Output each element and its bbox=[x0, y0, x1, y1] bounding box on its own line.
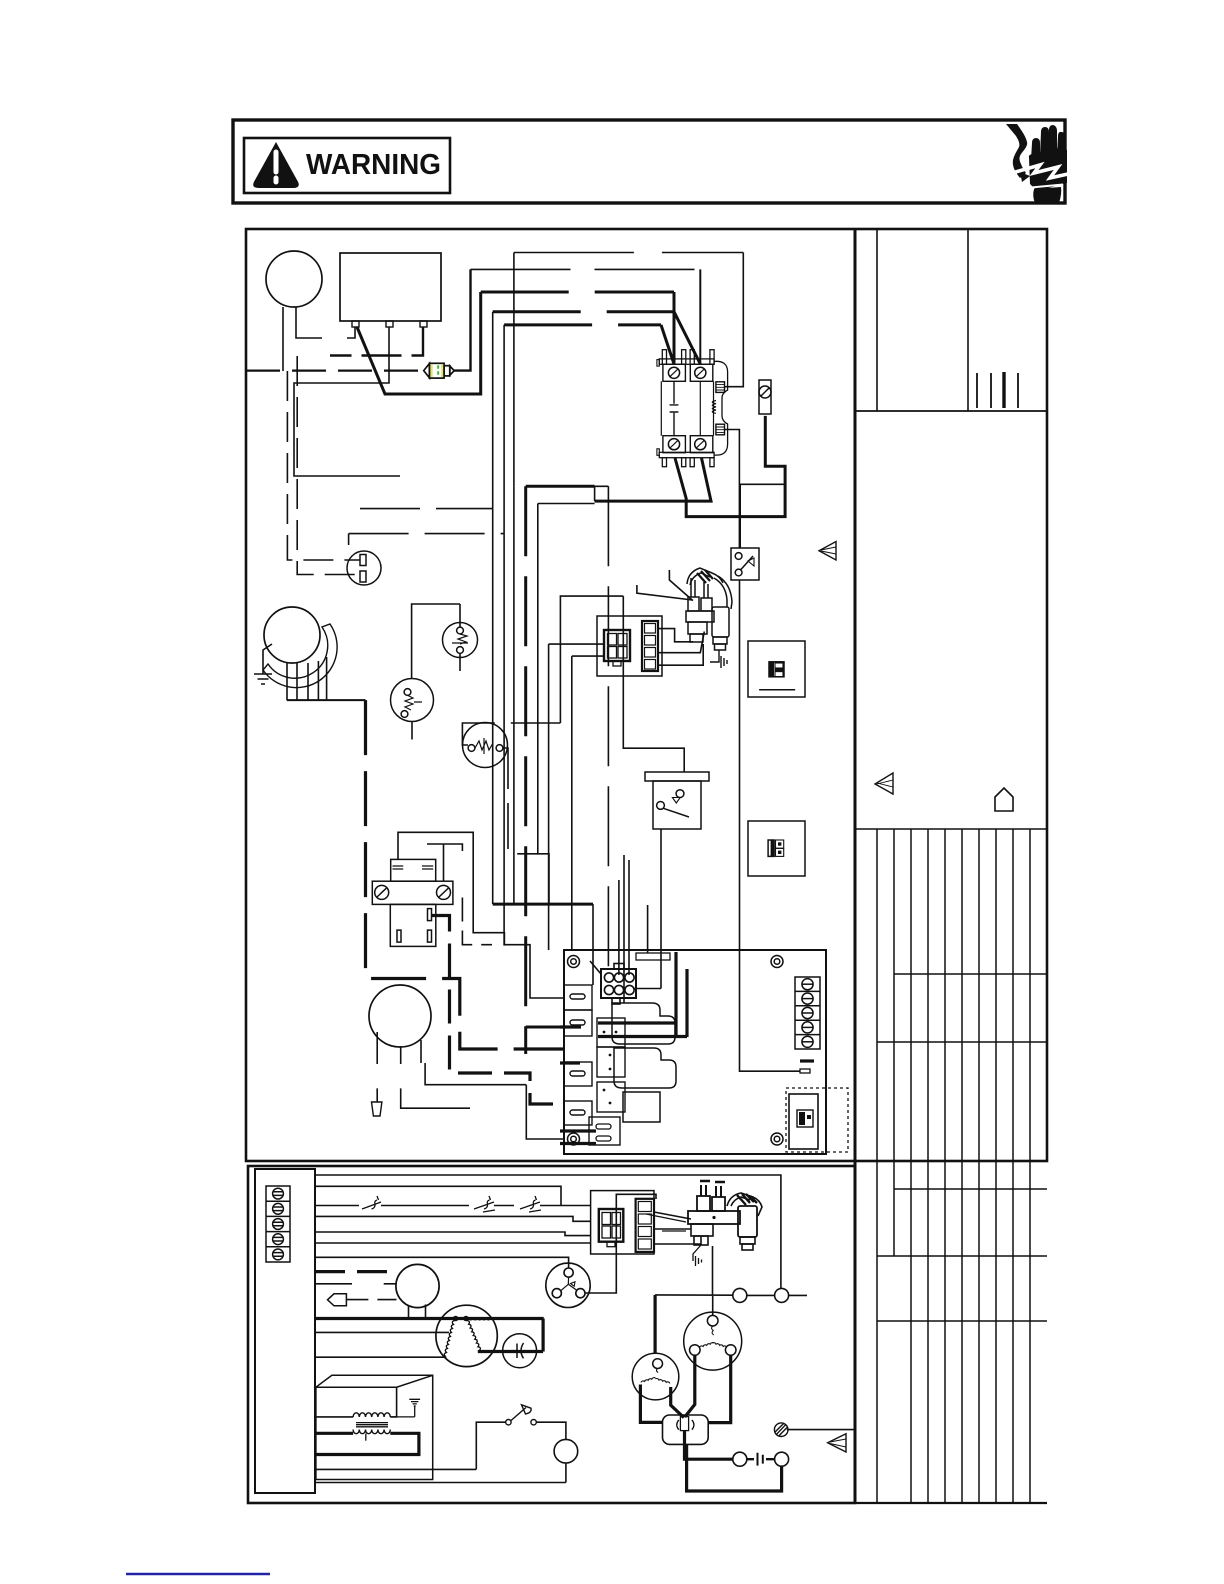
pressure switch PS1 bbox=[731, 548, 759, 580]
table row divider 2 bbox=[877, 1041, 1047, 1043]
table row divider 4 bbox=[877, 1255, 1047, 1257]
field plug arrow PA bbox=[328, 1294, 347, 1306]
connector CN2 4-slot header bbox=[636, 1199, 654, 1252]
contactor screw T4 bbox=[695, 439, 706, 450]
right panel horizontal divider bbox=[855, 410, 1047, 412]
board screw hole bottom-left bbox=[568, 1133, 580, 1145]
wire PL1 upper lead bbox=[287, 371, 360, 560]
connector CN2 4-pin plug bbox=[599, 1209, 624, 1247]
B1 terminal stub 1 bbox=[352, 321, 359, 327]
warning inner label box bbox=[244, 138, 450, 193]
wire IDM stub 2 bbox=[346, 1299, 396, 1301]
wire B1 stub3 drop bbox=[330, 327, 423, 356]
wire PS1 drop bbox=[740, 580, 801, 1071]
board left terminal cell 1 bbox=[564, 985, 592, 1125]
wire riser v1 bbox=[492, 312, 494, 509]
wire M2 lead 3 bbox=[421, 1040, 526, 1085]
wire P3 right lead bbox=[585, 1194, 656, 1293]
table column line 8 bbox=[995, 829, 997, 1503]
revision tick 4 bbox=[1017, 373, 1019, 408]
wire LS1 bottom drop bbox=[660, 829, 662, 989]
wire T4 chain riser bbox=[594, 486, 596, 501]
wire lamp bottom bbox=[565, 1463, 567, 1483]
right panel left edge bbox=[854, 229, 857, 1503]
ground G1 bbox=[254, 644, 272, 684]
wire thick M3B top feed bbox=[653, 1295, 656, 1354]
wire B1 stub2 drop bbox=[294, 327, 400, 476]
transformer dashed outline box bbox=[786, 1088, 848, 1152]
contactor screw T3 bbox=[668, 439, 679, 450]
wire L5 thick dashed bbox=[504, 323, 661, 326]
revision tick 1 bbox=[976, 373, 978, 408]
connector CN2 housing bbox=[591, 1191, 654, 1254]
contactor coil terminal upper bbox=[716, 382, 725, 393]
wire dashed run to fuse bbox=[246, 370, 424, 372]
wire thick T4 bottom run bbox=[595, 458, 711, 501]
wire GV1 ground lead bbox=[710, 650, 727, 668]
wire T2 vertical drop bbox=[699, 269, 701, 364]
wire GS2 to frame bbox=[787, 1429, 855, 1431]
B1 terminal stub 2 bbox=[386, 321, 393, 327]
relay pin box 1 bbox=[597, 1018, 625, 1047]
inducer motor IDM bbox=[396, 1264, 439, 1307]
transformer primary coil bbox=[353, 1413, 390, 1417]
spec table bbox=[855, 829, 1047, 1503]
wire R1 screw jumper bbox=[427, 844, 462, 881]
flame sensor box RS2 bbox=[748, 821, 805, 876]
internal overload O1 bbox=[443, 623, 478, 658]
wire thick board horizontal 2 bbox=[598, 1035, 687, 1038]
connector CN1 4-pin plug bbox=[604, 630, 630, 666]
wire thick B1 diagonal feed bbox=[357, 292, 481, 394]
wire CN1 to valve 1 bbox=[658, 629, 693, 642]
run capacitor box B1 bbox=[340, 253, 441, 321]
relay K1 outline bbox=[612, 1003, 675, 1044]
wire compressor bottom bus bbox=[287, 699, 366, 701]
contactor left bottom notch bbox=[657, 449, 659, 456]
wire M1 right lead hook bbox=[296, 307, 322, 338]
wire lower w2 step bbox=[315, 1186, 561, 1205]
contactor pole block T3 bbox=[663, 436, 686, 453]
blower plug P3 bbox=[546, 1263, 590, 1307]
wire y486 thin extension bbox=[595, 486, 609, 974]
contactor pole block T2 bbox=[690, 364, 713, 381]
B1 terminal stub 3 bbox=[420, 321, 427, 327]
contactor coil winding bbox=[712, 401, 716, 414]
wire GV1 diagonal feed 2 bbox=[637, 585, 692, 600]
discharge thermostat O2 bbox=[391, 679, 434, 722]
wire lower w5 bbox=[315, 1232, 591, 1236]
note triangle flag bbox=[875, 773, 893, 794]
defrost thermostat O3 bbox=[463, 723, 508, 768]
transformer core lines bbox=[356, 1423, 388, 1427]
wire T2 diagonal drop bbox=[674, 312, 700, 364]
wire thick stair bus bbox=[493, 903, 593, 906]
blower capacitor CAP bbox=[503, 1334, 537, 1368]
induced draft motor M3A bbox=[684, 1312, 742, 1370]
wire thick cap lead to inline bbox=[685, 1431, 733, 1460]
inline connector pair mid bbox=[733, 1288, 807, 1302]
wire lower top loop bbox=[315, 1175, 781, 1288]
table column line 6 bbox=[961, 829, 963, 1503]
compressor crescent bbox=[263, 624, 337, 688]
wire blower mid lead bbox=[315, 1331, 449, 1333]
wire IDM stub 1 bbox=[315, 1283, 397, 1285]
wire thick mid feeder x525 bbox=[526, 486, 581, 1054]
indicator lamp LP bbox=[554, 1439, 578, 1463]
wire stair step a bbox=[492, 509, 494, 904]
relay K2 outline bbox=[614, 1048, 676, 1088]
wire O2 bottom stub bbox=[411, 722, 413, 748]
wire thick board vertical 1 bbox=[674, 952, 677, 1037]
revision tick 3 bbox=[1002, 372, 1005, 408]
note pentagon flag bbox=[995, 788, 1013, 811]
wire fuse to riser bbox=[454, 269, 470, 370]
contactor coil terminal lower bbox=[716, 424, 725, 435]
wire CN1 top bracket bbox=[560, 596, 623, 723]
wire M2 lead 1 with arrow bbox=[376, 1032, 378, 1102]
wire GV1 diagonal feed 1 bbox=[669, 570, 693, 601]
table column line 7 bbox=[978, 829, 980, 1503]
contactor pole block T1 bbox=[663, 364, 686, 381]
relay pin box 3 bbox=[597, 1082, 625, 1112]
wire dashed left run y533 bbox=[349, 534, 505, 545]
wire stair step c bbox=[513, 486, 515, 903]
wire thick blower right edge bbox=[541, 1319, 544, 1352]
wire GV2 ground lead bbox=[693, 1245, 702, 1266]
wire CN1 feed upper bbox=[549, 644, 604, 950]
run capacitor RC bbox=[663, 1415, 709, 1444]
wire lower w6 plug feed bbox=[315, 1257, 569, 1268]
wire molex feed 4 bbox=[647, 905, 649, 953]
wire thick M3A left drop bbox=[685, 1355, 695, 1417]
wire molex right link bbox=[634, 988, 661, 990]
wire door switch loop feed bbox=[315, 1422, 506, 1469]
blower relay R1 bbox=[372, 859, 453, 946]
fan motor M1 bbox=[266, 251, 322, 307]
furnace control board outline bbox=[564, 950, 826, 1154]
transformer inner module bbox=[789, 1094, 818, 1149]
transformer icon bbox=[797, 1110, 813, 1127]
contactor left notch bbox=[657, 360, 659, 367]
molex connector MX bbox=[590, 961, 636, 1004]
right panel inner divider 2 bbox=[967, 229, 969, 411]
right panel inner divider 1 bbox=[876, 229, 878, 411]
wire thick capacitor chord bbox=[478, 1350, 543, 1353]
board left terminal cell 2 bbox=[564, 1010, 592, 1036]
table row divider 5 bbox=[877, 1320, 1047, 1322]
wire PS1 riser branch bbox=[740, 484, 785, 548]
gas valve GV2 bbox=[688, 1181, 762, 1250]
limit switch LS1 bbox=[645, 772, 709, 829]
wire door switch to lamp bbox=[536, 1422, 566, 1439]
wire step x624 to board bbox=[623, 855, 625, 1003]
wire CN1 bottom drop to LS1 bbox=[623, 596, 684, 772]
wire junction to motors bbox=[655, 1246, 733, 1315]
transformer center tap bbox=[365, 1434, 367, 1441]
wire lower w5b bbox=[315, 1242, 591, 1244]
wire dashed left run y508 bbox=[360, 508, 493, 510]
wire coil to L1 bbox=[725, 253, 744, 387]
wire thick M3B right diagonal bbox=[671, 1387, 684, 1418]
inline capacitor connector pair bbox=[733, 1452, 789, 1466]
wire molex feed 3 bbox=[628, 860, 630, 975]
table row divider 3 bbox=[894, 1188, 1047, 1190]
wire L1 dashed horizontal bbox=[514, 252, 743, 254]
contactor screw T2 bbox=[695, 367, 706, 378]
wire lower w4 bbox=[315, 1216, 591, 1221]
table row divider 1 bbox=[894, 973, 1047, 975]
contactor body sides bbox=[661, 381, 713, 435]
BLM winding bbox=[444, 1316, 490, 1356]
wire thick secondary lead bbox=[315, 1432, 353, 1435]
in-line fuse FU bbox=[424, 363, 455, 378]
wire thick T3 drop chain bbox=[675, 416, 785, 517]
wire primary top lead bbox=[315, 1416, 353, 1418]
note triangle flag lower bbox=[828, 1434, 846, 1452]
revision tick 2 bbox=[990, 373, 992, 408]
wire L4 thick dashed bbox=[493, 310, 674, 313]
contactor coil bracket bbox=[714, 361, 728, 455]
board bold stub 1 bbox=[560, 1025, 581, 1028]
wire M1 left lead down bbox=[282, 307, 284, 371]
contactor top bar bbox=[659, 359, 714, 364]
table column line 3 bbox=[910, 829, 912, 1503]
connector CN1 housing bbox=[597, 616, 662, 676]
wire T1 second diagonal drop bbox=[661, 325, 674, 364]
relay pin box 2 bbox=[597, 1047, 625, 1077]
wire lower w13 bbox=[315, 1482, 566, 1484]
wire primary right lead riser bbox=[390, 1387, 396, 1417]
door switch DS bbox=[506, 1405, 537, 1425]
board bold stub 2 bbox=[560, 1061, 580, 1064]
relay K3 box bbox=[623, 1092, 660, 1122]
relay pin box 4 bbox=[589, 1117, 620, 1145]
wire riser v2 bbox=[503, 325, 505, 534]
wire thick M3B drop bbox=[640, 1385, 662, 1423]
wire L2 dashed horizontal bbox=[471, 268, 701, 270]
transformer box XFMR bbox=[316, 1375, 433, 1479]
wire corner above lower box bbox=[526, 1085, 564, 1139]
svg-text:WARNING: WARNING bbox=[306, 149, 441, 181]
wire PL1 lower lead bbox=[297, 356, 360, 575]
aux limit switch symbol 2 bbox=[474, 1196, 495, 1212]
ground screw GS2 bbox=[774, 1423, 788, 1437]
appliance plug PL1 bbox=[347, 551, 381, 585]
wire thick bottom return loop bbox=[687, 1444, 782, 1491]
wire thick R1 to board bbox=[432, 916, 565, 1105]
transformer secondary coil bbox=[353, 1430, 390, 1434]
wire thick blower top bus bbox=[315, 1317, 544, 1320]
wire molex feed 2 bbox=[618, 880, 620, 975]
warning triangle icon bbox=[253, 142, 299, 188]
board screw hole top-left bbox=[568, 956, 580, 968]
board left terminal cell 3 bbox=[564, 1062, 592, 1086]
wire T1 drop bbox=[673, 292, 676, 364]
board jumper dash bbox=[800, 1059, 814, 1062]
wire riser v3 bbox=[513, 253, 515, 487]
board screw hole top-right bbox=[771, 956, 783, 968]
wire R1 upper pin loop bbox=[398, 832, 504, 945]
condenser fan motor M2 bbox=[369, 985, 431, 1047]
gas valve GV1 bbox=[686, 568, 732, 650]
wire thick M3A right drop bbox=[708, 1355, 731, 1422]
wire dashed y486 to T4 chain bbox=[526, 485, 595, 488]
pin header strip bbox=[636, 953, 670, 960]
wire CN1 feed lower bbox=[572, 656, 604, 950]
contactor bottom tab posts bbox=[662, 458, 666, 467]
shock hazard hand icon bbox=[1006, 124, 1068, 203]
wire thick board horizontal 1 bbox=[598, 1021, 676, 1024]
table column line 10 bbox=[1029, 829, 1031, 1503]
wire O1 bottom stub bbox=[459, 654, 461, 672]
wire limit switch line bbox=[315, 1205, 591, 1207]
revision underline blue bbox=[126, 1573, 270, 1575]
contactor screw T1 bbox=[668, 367, 679, 378]
table column line 1 bbox=[876, 829, 878, 1503]
wire blower low lead bbox=[315, 1356, 446, 1358]
wire thick inducer feed bbox=[315, 1270, 396, 1273]
wire coil lower to PS1 riser bbox=[725, 430, 740, 549]
wire GV2 feeds from CN2 bbox=[654, 1212, 701, 1244]
blower motor M3B bbox=[632, 1353, 679, 1400]
wire R1 right loop bbox=[462, 898, 492, 945]
connector CN1 4-slot header bbox=[642, 621, 658, 671]
table column line 4 bbox=[927, 829, 929, 1503]
compressor terminal leads bbox=[287, 657, 327, 700]
PS1 wire landing pin bbox=[800, 1069, 810, 1073]
board screw hole bottom-right bbox=[771, 1133, 783, 1145]
lower diagram border bbox=[248, 1166, 855, 1503]
table column line 2 bbox=[893, 829, 895, 1256]
field wire arrow DA bbox=[372, 1102, 382, 1116]
wire riser x549 drop bbox=[538, 504, 595, 986]
contactor bottom bar bbox=[659, 452, 714, 457]
wire thick board bottom stub bbox=[560, 1129, 596, 1132]
wire CN1 to valve 2 bbox=[658, 632, 704, 653]
terminal block TB bbox=[266, 1186, 290, 1262]
warning banner outer box bbox=[233, 120, 1065, 203]
table column line 9 bbox=[1012, 829, 1014, 1503]
table column line 5 bbox=[944, 829, 946, 1503]
wire thick left feeder drop bbox=[366, 700, 565, 1049]
wire stair step b bbox=[504, 534, 564, 998]
wire GV2 upper diagonal feeds bbox=[646, 1214, 686, 1231]
aux limit switch symbol 3 bbox=[520, 1196, 541, 1212]
wire O3 right drop bbox=[503, 748, 538, 854]
contactor pole line T2-T4 bbox=[699, 381, 701, 435]
wire B1 stub1 hook bbox=[347, 327, 355, 338]
contactor pole block T4 bbox=[690, 436, 713, 453]
lower legend tall box bbox=[255, 1169, 315, 1493]
ground screw GS1 bbox=[759, 380, 771, 414]
thermostat terminal strip TS bbox=[795, 977, 820, 1049]
wire CN1 to valve 3 bbox=[658, 644, 703, 665]
wire IDM bottom leads bbox=[409, 1305, 426, 1319]
aux limit switch symbol 1 bbox=[362, 1196, 381, 1209]
contactor top tab posts bbox=[662, 350, 666, 365]
wire L3 thick dashed to contactor T1 bbox=[481, 291, 674, 294]
contactor CC bbox=[657, 350, 728, 467]
table top edge bbox=[855, 828, 1047, 830]
wire O3 left bracket bbox=[462, 723, 560, 745]
note triangle flag upper bbox=[819, 542, 836, 561]
transformer ground G2 bbox=[390, 1399, 420, 1417]
wire M2 lead 2 bbox=[401, 1046, 470, 1108]
wire thick board vertical 2 bbox=[685, 969, 688, 1037]
rollout switch box RS1 bbox=[748, 641, 805, 697]
wire O1 top bracket bbox=[412, 604, 460, 679]
board left terminal cell 4 bbox=[564, 1101, 592, 1125]
blower motor BLM bbox=[436, 1305, 497, 1366]
upper diagram border bbox=[246, 229, 1047, 1161]
wire thick secondary return loop bbox=[316, 1433, 419, 1454]
table bottom edge bbox=[855, 1502, 1047, 1504]
compressor COMP bbox=[264, 607, 320, 663]
contactor capacitor symbol bbox=[670, 381, 679, 435]
